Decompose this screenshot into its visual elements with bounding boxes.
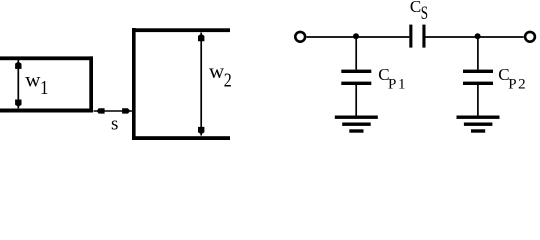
- capacitor CP2 top plate: [463, 70, 493, 73]
- capacitor CP1 top plate: [341, 70, 371, 73]
- microstrip line 2 left edge: [132, 28, 136, 140]
- terminal (left port): [295, 32, 305, 42]
- svg-text:2: 2: [224, 69, 232, 91]
- wire CP2 to ground: [477, 85, 479, 116]
- dimension arrow w1: [15, 60, 21, 108]
- capacitor CP2 bottom plate: [463, 82, 493, 85]
- svg-text:S: S: [421, 1, 428, 23]
- svg-text:w: w: [25, 67, 41, 91]
- microstrip line 1 top edge: [0, 56, 93, 60]
- svg-text:w: w: [209, 59, 225, 83]
- svg-text:C: C: [410, 0, 421, 16]
- microstrip line 2 bottom edge: [132, 136, 230, 140]
- ground (right): [457, 116, 500, 133]
- node B junction dot: [475, 33, 481, 39]
- wire node B down to CP2: [477, 37, 479, 70]
- wire left terminal to series capacitor: [307, 36, 410, 38]
- capacitor CS left plate: [409, 25, 412, 48]
- svg-text:P2: P2: [508, 77, 527, 93]
- wire series capacitor to right terminal: [426, 36, 524, 38]
- svg-text:s: s: [111, 114, 118, 135]
- svg-text:1: 1: [40, 77, 49, 100]
- dimension arrow w2: [198, 33, 204, 136]
- capacitor CP1 bottom plate: [341, 82, 371, 85]
- terminal (right port): [525, 32, 535, 42]
- microstrip line 1 right edge: [89, 56, 93, 112]
- wire node A down to CP1: [355, 37, 357, 70]
- capacitor CS right plate: [422, 25, 425, 48]
- dimension arrow s: [94, 108, 133, 113]
- svg-text:P1: P1: [388, 77, 407, 93]
- node A junction dot: [353, 33, 359, 39]
- microstrip line 1 bottom edge: [0, 109, 93, 113]
- ground (left): [335, 116, 378, 133]
- wire CP1 to ground: [355, 85, 357, 116]
- microstrip line 2 top edge: [132, 28, 230, 32]
